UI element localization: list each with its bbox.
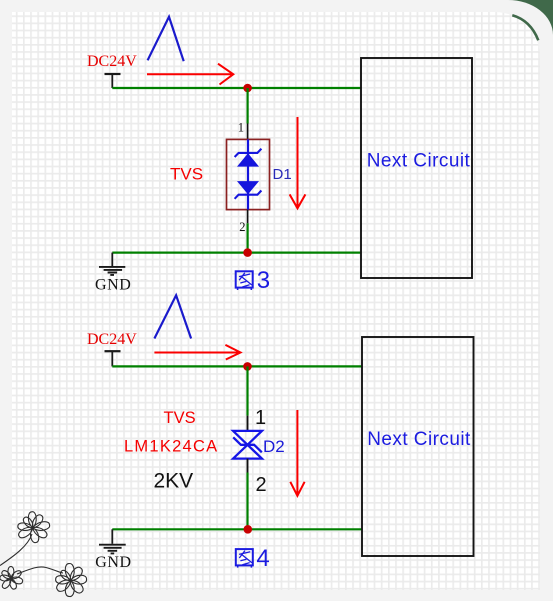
D2 pin 1 lead <box>247 416 249 431</box>
svg-text:DC24V: DC24V <box>87 331 137 348</box>
ground symbol stem (top) <box>111 253 113 266</box>
junction dot top GND net <box>243 248 252 257</box>
svg-text:D2: D2 <box>263 437 285 456</box>
surge spike symbol (bottom) <box>154 295 191 338</box>
ground symbol bars (top) <box>99 267 125 275</box>
wire from junction down to D2 pin1 <box>246 366 248 415</box>
flower doodle lower-right <box>56 564 87 597</box>
flower doodle connecting stem <box>17 567 63 574</box>
svg-text:TVS: TVS <box>164 409 196 427</box>
junction dot bottom GND net <box>244 525 253 534</box>
TVS D2 upper triangle <box>233 431 262 445</box>
svg-text:DC24V: DC24V <box>87 53 137 70</box>
wire from D1 pin2 down to GND net <box>247 223 249 252</box>
corner leaf arc <box>512 15 538 40</box>
figure label 图3 box glyph <box>236 271 253 290</box>
D1 pin 2 lead <box>247 210 249 224</box>
Next Circuit block (top) <box>361 58 472 278</box>
D1 pin 1 lead <box>247 124 249 141</box>
svg-text:LM1K24CA: LM1K24CA <box>124 438 218 456</box>
wire net VIN top horizontal <box>112 87 361 89</box>
flower doodle stem upper <box>0 534 32 566</box>
wire net VIN bottom horizontal <box>112 365 362 367</box>
TVS D2 lower triangle <box>233 445 262 459</box>
svg-text:1: 1 <box>238 121 244 135</box>
D2 pin 2 lead <box>247 459 249 473</box>
decorative flower doodles bottom-left <box>0 512 87 597</box>
svg-text:2KV: 2KV <box>154 470 194 493</box>
svg-text:2: 2 <box>239 220 245 234</box>
surge spike symbol (top) <box>148 17 184 61</box>
power symbol DC24V bar (top) <box>105 73 121 75</box>
wire net GND bottom horizontal <box>112 528 362 530</box>
power symbol DC24V stem (top) <box>111 74 113 88</box>
svg-text:4: 4 <box>256 545 269 572</box>
wire net GND top horizontal <box>112 252 361 254</box>
flower doodle upper <box>18 512 50 543</box>
svg-text:GND: GND <box>95 276 131 293</box>
TVS D1 internal wire <box>247 139 249 209</box>
TVS D1 upper zener cathode bar <box>235 149 262 157</box>
ground symbol stem (bottom) <box>111 529 113 544</box>
svg-text:2: 2 <box>256 474 267 496</box>
wire from D2 pin2 down to GND net <box>246 473 248 530</box>
ground symbol bars (bottom) <box>99 545 126 554</box>
TVS D2 zener crossbar <box>233 437 262 452</box>
svg-text:TVS: TVS <box>170 165 203 184</box>
power symbol DC24V bar (bottom) <box>105 350 121 352</box>
svg-text:D1: D1 <box>273 166 292 183</box>
discharge current arrow down (bottom) <box>290 410 304 496</box>
TVS D1 body box <box>227 139 270 209</box>
power symbol DC24V stem (bottom) <box>111 351 113 366</box>
TVS D1 lower zener triangle <box>237 181 259 194</box>
surge current arrow right (bottom) <box>154 345 240 360</box>
page corner background (green) <box>506 0 553 36</box>
flower doodle small lower-left <box>0 567 23 590</box>
junction dot bottom VIN net <box>243 362 252 371</box>
figure label 图4 box glyph <box>236 549 253 568</box>
junction dot top net <box>243 84 252 93</box>
discharge current arrow down (top) <box>290 117 306 208</box>
wire from junction down to D1 pin1 <box>247 88 249 124</box>
svg-text:GND: GND <box>95 554 131 571</box>
TVS D1 lower zener cathode bar <box>235 191 262 199</box>
surge current arrow right (top) <box>147 64 233 85</box>
svg-text:Next Circuit: Next Circuit <box>367 429 471 450</box>
TVS D1 upper zener triangle <box>237 153 259 166</box>
svg-text:Next Circuit: Next Circuit <box>367 151 471 172</box>
svg-text:1: 1 <box>255 407 266 429</box>
svg-text:3: 3 <box>257 267 270 294</box>
Next Circuit block (bottom) <box>362 337 474 556</box>
